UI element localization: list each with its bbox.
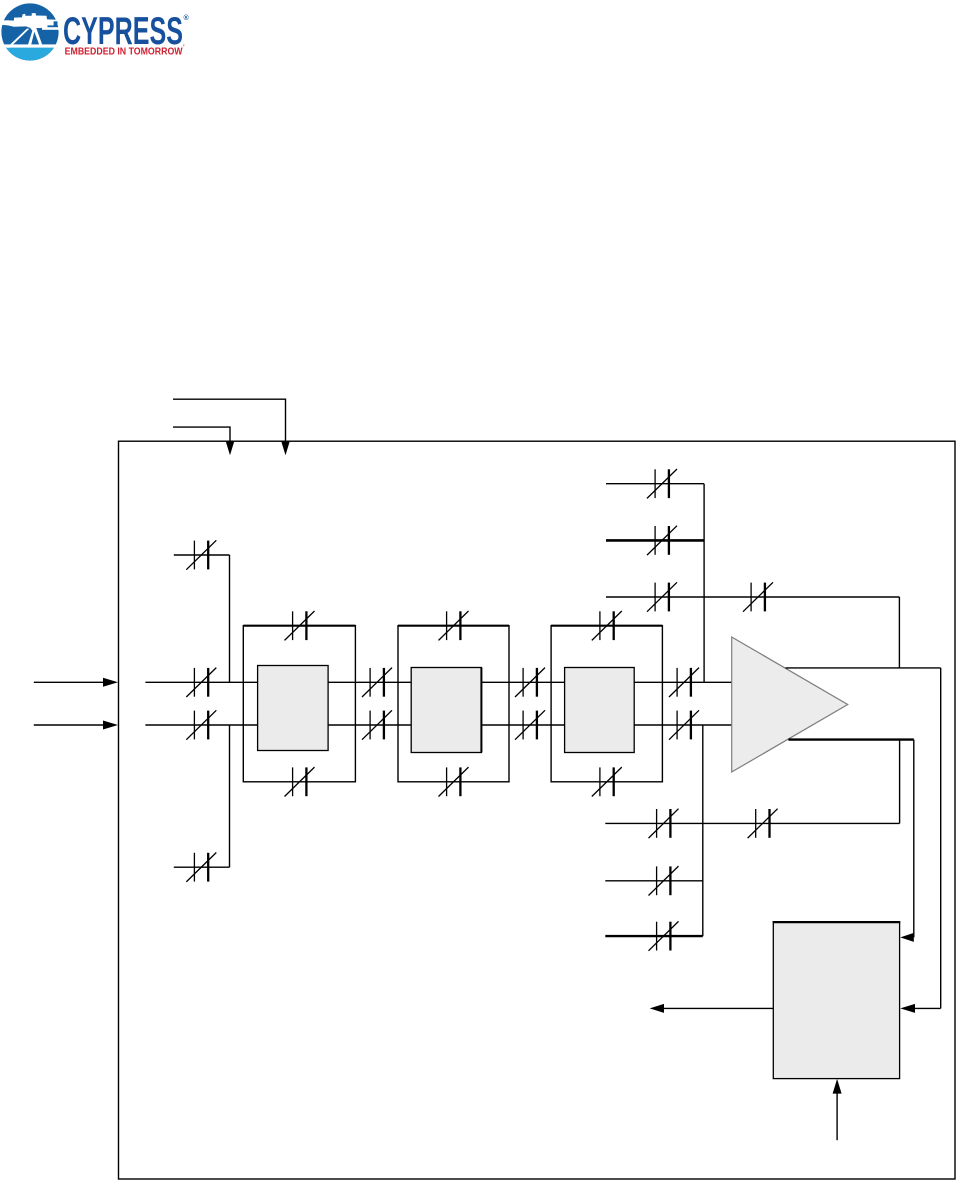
- svg-text:®: ®: [184, 14, 190, 22]
- svg-text:EMBEDDED IN TOMORROW: EMBEDDED IN TOMORROW: [65, 46, 183, 58]
- svg-text:’: ’: [183, 45, 185, 51]
